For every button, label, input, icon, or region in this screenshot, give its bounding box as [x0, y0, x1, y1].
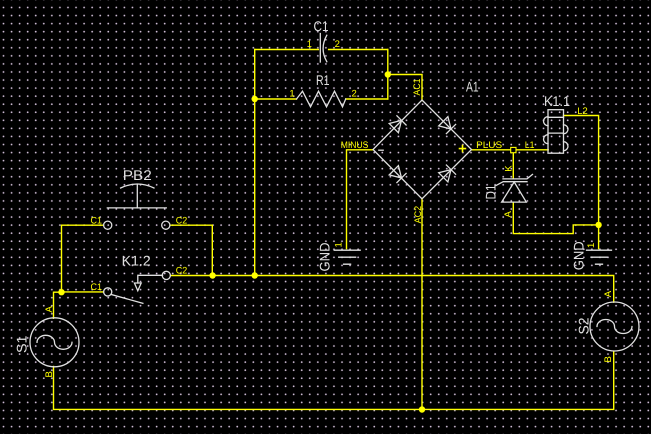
wire PB2 C2 down to middle bus — [170, 225, 212, 275]
bridge rectifier A1 diamond — [373, 100, 472, 199]
wire PLUS to node square — [472, 149, 511, 151]
AC source S1 — [30, 318, 79, 367]
svg-text:A: A — [603, 290, 614, 297]
capacitor C1 — [320, 34, 327, 63]
bridge diode top-left — [389, 116, 406, 133]
junction node C1/R1 pin1 left — [252, 96, 258, 102]
junction node middle bus / PB2-C2 — [209, 272, 215, 278]
zener diode D1 — [496, 174, 532, 202]
svg-text:1: 1 — [289, 89, 294, 100]
resistor R1 — [297, 91, 346, 107]
wire PB2 C1 down to node — [62, 225, 104, 292]
bridge diode top-right — [439, 117, 456, 134]
wire K1.1 L2 down to GND 2 — [564, 116, 599, 249]
wire R1 pin2 stub — [346, 98, 388, 100]
svg-text:1: 1 — [586, 243, 597, 248]
svg-text:PLUS: PLUS — [476, 140, 502, 151]
svg-text:R1: R1 — [316, 72, 330, 88]
svg-text:C1: C1 — [314, 18, 329, 34]
svg-text:MINUS: MINUS — [341, 140, 369, 151]
svg-text:C1: C1 — [91, 282, 103, 293]
wire bottom bus S1 B to S2 B — [54, 351, 614, 409]
svg-text:C2: C2 — [176, 265, 188, 276]
wire D1 anode to junction near GND 2 — [513, 202, 598, 233]
pushbutton PB2 — [104, 184, 170, 229]
wire bridge AC2 down to bottom bus — [421, 199, 423, 410]
junction node D1 anode / GND 2 — [595, 222, 601, 228]
junction node S1-A / PB2-C1 / K1.2-C1 — [58, 289, 64, 295]
svg-text:AC1: AC1 — [412, 79, 423, 96]
svg-text:1: 1 — [334, 242, 345, 247]
svg-text:B: B — [44, 371, 55, 377]
svg-text:C2: C2 — [176, 215, 188, 226]
wire C1 pin1 horizontal — [255, 49, 319, 51]
svg-text:A1: A1 — [466, 78, 479, 94]
svg-text:S2: S2 — [575, 317, 591, 334]
wire node to S1 A — [54, 292, 62, 318]
ground GND 1 — [334, 250, 360, 264]
svg-text:K: K — [503, 165, 514, 172]
bridge diode bottom-right — [439, 165, 456, 182]
svg-text:K1.1: K1.1 — [544, 93, 570, 109]
svg-text:GND: GND — [317, 243, 333, 272]
ground GND 2 — [587, 250, 612, 264]
svg-text:AC2: AC2 — [413, 206, 424, 224]
junction node C1/R1 pin2 to AC1 — [385, 71, 391, 77]
svg-text:A: A — [44, 306, 55, 313]
wire to bridge AC1 — [388, 75, 422, 101]
wire right vertical C1 pin2 to R1 pin2 — [387, 50, 389, 100]
svg-text:2: 2 — [352, 89, 357, 100]
svg-text:PB2: PB2 — [123, 167, 152, 183]
svg-text:B: B — [603, 356, 614, 362]
junction node bottom bus / AC2 — [419, 406, 425, 412]
wire C1 pin2 horizontal — [329, 49, 388, 51]
svg-text:2: 2 — [335, 39, 340, 50]
node square pad at PLUS/L1/D1 — [511, 147, 516, 152]
wire left vertical from C1 down to mid bus — [254, 50, 256, 276]
bridge diode bottom-left — [389, 166, 406, 183]
svg-text:1: 1 — [307, 39, 312, 50]
svg-text:L2: L2 — [577, 106, 587, 117]
svg-text:C1: C1 — [91, 215, 103, 226]
wire R1 pin1 stub — [255, 98, 297, 100]
svg-text:GND: GND — [571, 241, 587, 270]
bridge plus mark — [459, 145, 467, 153]
svg-text:A: A — [503, 211, 514, 218]
wire node square down to D1 cathode — [512, 153, 514, 179]
wire node square to K1.1 L1 — [516, 149, 548, 151]
relay contact K1.2 — [104, 271, 171, 303]
AC source S2 — [590, 302, 639, 351]
junction node middle bus / left vertical — [252, 272, 258, 278]
wire MINUS to GND 1 — [347, 150, 374, 249]
svg-text:D1: D1 — [483, 184, 499, 199]
svg-text:S1: S1 — [14, 335, 30, 353]
svg-text:K1.2: K1.2 — [122, 253, 151, 269]
svg-text:L1: L1 — [525, 140, 535, 151]
relay coil K1.1 — [544, 110, 569, 154]
wire K1.2 C1 to node — [62, 291, 104, 293]
bridge minus mark — [379, 149, 383, 151]
wire middle bus K1.2-C2 to S2 A — [171, 276, 614, 303]
